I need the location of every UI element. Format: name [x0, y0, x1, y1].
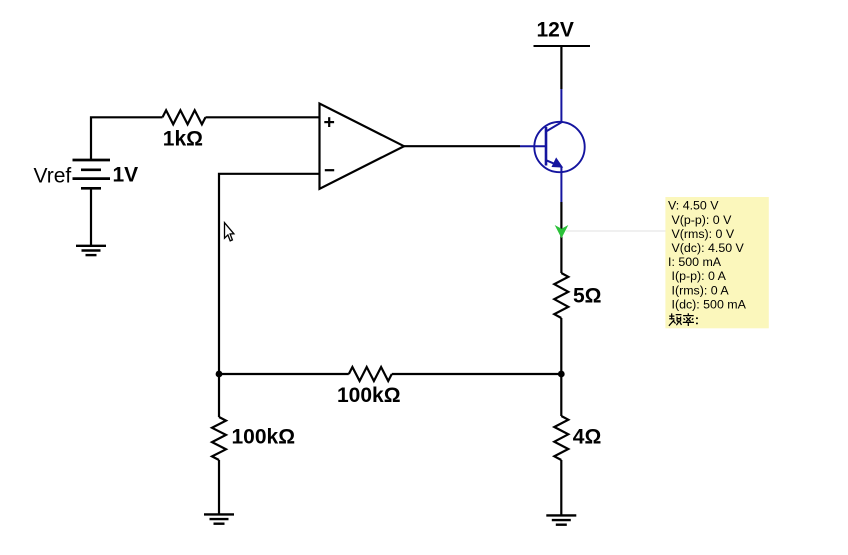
- tooltip text V: 4.50 V: [668, 199, 719, 213]
- transistor Q1 emitter stroke: [546, 160, 562, 167]
- resistor R3 100kΩ vertical body: [212, 417, 226, 460]
- wire collector to 12V rail: [560, 46, 562, 89]
- probe tooltip box: [665, 197, 768, 328]
- wire battery top to R1: [91, 117, 163, 160]
- label 4Ω: [573, 425, 602, 448]
- wire feedback node up to op-amp minus input: [219, 174, 320, 374]
- svg-text:I: 500 mA: I: 500 mA: [668, 255, 722, 269]
- svg-text:1V: 1V: [113, 163, 139, 186]
- transistor Q1 base lead: [520, 145, 546, 147]
- svg-text:Vref: Vref: [34, 164, 72, 187]
- wire emitter down to R5: [560, 202, 562, 273]
- resistor R1 1kΩ body: [163, 110, 206, 124]
- svg-text:I(dc): 500 mA: I(dc): 500 mA: [672, 297, 747, 311]
- svg-text:V(rms): 0 V: V(rms): 0 V: [672, 227, 735, 241]
- wire R5 to node: [560, 318, 562, 374]
- transistor Q1 emitter lead: [560, 168, 562, 203]
- power rail 12V bar: [534, 45, 591, 47]
- resistor R5 5Ω body: [554, 273, 568, 318]
- svg-text:V(p-p): 0 V: V(p-p): 0 V: [672, 213, 733, 227]
- svg-text:4Ω: 4Ω: [573, 425, 602, 448]
- op-amp plus input marking: [324, 117, 334, 127]
- transistor Q1 base bar: [545, 127, 548, 166]
- svg-text:5Ω: 5Ω: [573, 285, 602, 308]
- tooltip text frequency CJK glyphs: [669, 313, 697, 326]
- wire left node down to R3: [218, 374, 220, 417]
- label 100kΩ vertical: [232, 426, 296, 449]
- ground under R3: [204, 514, 234, 523]
- node junction left: [216, 371, 223, 378]
- label 1V: [113, 163, 139, 186]
- node junction right: [558, 371, 565, 378]
- label 1kΩ: [163, 127, 203, 150]
- tooltip text I(dc): [672, 297, 747, 311]
- ground under battery: [76, 246, 106, 255]
- battery Vref plates: [73, 160, 111, 188]
- op-amp U1 triangle: [320, 104, 405, 189]
- svg-text:12V: 12V: [537, 18, 574, 41]
- mouse cursor: [225, 223, 234, 241]
- transistor Q1 emitter arrow: [552, 159, 562, 167]
- tooltip text I: 500 mA: [668, 255, 722, 269]
- label 5Ω: [573, 285, 602, 308]
- svg-text:I(p-p): 0 A: I(p-p): 0 A: [672, 269, 727, 283]
- label 100kΩ horizontal: [337, 384, 401, 407]
- svg-text:100kΩ: 100kΩ: [232, 426, 296, 449]
- wire op-amp output: [404, 145, 520, 147]
- op-amp minus input marking: [325, 169, 334, 171]
- tooltip text V(dc): [672, 241, 745, 255]
- tooltip text I(p-p): [672, 269, 727, 283]
- tooltip text V(p-p): [672, 213, 733, 227]
- wire battery bottom to ground: [90, 188, 92, 246]
- tooltip text I(rms): [672, 283, 730, 297]
- resistor R2 100kΩ horizontal body: [349, 367, 392, 381]
- current probe green arrow: [555, 225, 569, 238]
- svg-text:100kΩ: 100kΩ: [337, 384, 401, 407]
- svg-text:1kΩ: 1kΩ: [163, 127, 203, 150]
- ground under R4: [546, 515, 576, 524]
- wire R3 to ground: [218, 460, 220, 514]
- wire right node down to R4: [560, 374, 562, 416]
- resistor R4 4Ω body: [554, 416, 568, 460]
- wire R1 to op-amp + input: [206, 116, 320, 118]
- svg-text:V: 4.50 V: V: 4.50 V: [668, 199, 719, 213]
- wire node to R2 left segment: [219, 373, 349, 375]
- tooltip text V(rms): [672, 227, 735, 241]
- transistor Q1 circle: [534, 122, 584, 172]
- transistor Q1 collector stroke: [546, 89, 561, 132]
- svg-text:I(rms): 0 A: I(rms): 0 A: [672, 283, 730, 297]
- leader line from probe to tooltip: [566, 230, 666, 232]
- wire R4 to ground: [560, 460, 562, 515]
- svg-text:V(dc): 4.50 V: V(dc): 4.50 V: [672, 241, 745, 255]
- label 12V: [537, 18, 574, 41]
- label Vref: [34, 164, 72, 187]
- wire R2 to right node: [392, 373, 562, 375]
